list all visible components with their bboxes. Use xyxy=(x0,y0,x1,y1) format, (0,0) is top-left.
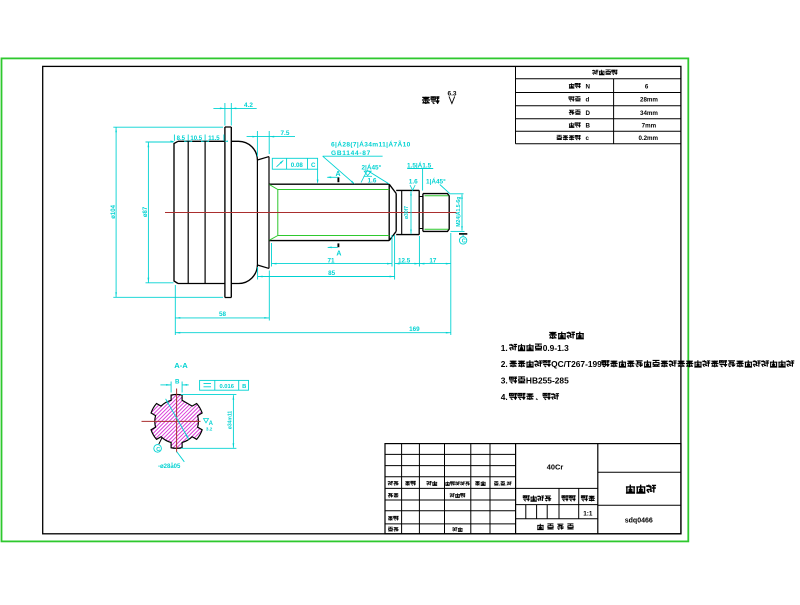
svg-text:3.: 3. xyxy=(501,376,508,386)
flange disc xyxy=(225,127,231,298)
svg-text:8.5: 8.5 xyxy=(177,136,186,142)
svg-text:B: B xyxy=(175,378,180,385)
bell housing body outline xyxy=(174,141,225,283)
spline parameter table xyxy=(516,78,681,80)
svg-text:c: c xyxy=(586,135,590,142)
threaded end xyxy=(423,194,449,232)
neck vertical xyxy=(256,160,258,265)
datum C flag xyxy=(459,233,467,235)
dim 169 overall xyxy=(175,332,451,334)
runout tolerance frame xyxy=(272,158,317,169)
dim 58 bell length xyxy=(174,285,176,335)
svg-text:6|Á28(7|Á34m11|Á7Ã10: 6|Á28(7|Á34m11|Á7Ã10 xyxy=(331,139,411,148)
dim 71 spline length xyxy=(271,243,273,267)
svg-text:0.9-1.3: 0.9-1.3 xyxy=(543,343,569,353)
shoulder slant top xyxy=(257,157,269,160)
svg-text:sdq0466: sdq0466 xyxy=(625,517,653,524)
technical requirements text xyxy=(549,332,557,339)
bell groove line 2 xyxy=(204,141,206,283)
svg-text:1|Á45°: 1|Á45° xyxy=(426,177,446,186)
svg-text:12.5: 12.5 xyxy=(398,257,411,264)
spline shaft outline xyxy=(269,184,396,240)
svg-text:2.: 2. xyxy=(501,359,508,369)
dim 4.2 flange width xyxy=(224,103,226,126)
svg-text:6: 6 xyxy=(645,83,649,90)
dome transition bottom xyxy=(231,265,257,284)
svg-text:-ø28å05: -ø28å05 xyxy=(158,463,181,470)
svg-text:N: N xyxy=(586,83,591,90)
dim 17 xyxy=(418,236,420,267)
svg-text:ø104: ø104 xyxy=(111,204,117,218)
svg-text:C: C xyxy=(156,447,160,453)
svg-text:58: 58 xyxy=(219,311,227,318)
svg-text:ø30f7: ø30f7 xyxy=(404,206,410,219)
svg-text:7.5: 7.5 xyxy=(281,130,290,137)
svg-text:2|Á45°: 2|Á45° xyxy=(362,163,382,172)
svg-text:28mm: 28mm xyxy=(640,97,658,104)
svg-text:HB255-285: HB255-285 xyxy=(526,376,569,386)
svg-text:85: 85 xyxy=(328,270,336,277)
dim dia104 xyxy=(115,127,117,297)
outer green drawing frame xyxy=(2,58,689,541)
svg-text:A: A xyxy=(335,171,340,178)
neck section after spline xyxy=(396,190,419,234)
svg-text:4.: 4. xyxy=(501,392,508,402)
title block xyxy=(385,444,681,534)
title block texts xyxy=(388,481,393,485)
svg-text:71: 71 xyxy=(328,257,336,264)
svg-text:1.6: 1.6 xyxy=(368,178,377,185)
svg-text:A: A xyxy=(336,251,341,258)
svg-text:4.2: 4.2 xyxy=(244,102,253,109)
svg-text:ø34m11: ø34m11 xyxy=(228,411,234,430)
svg-text:7mm: 7mm xyxy=(642,123,657,130)
thread minor dia (green) xyxy=(425,196,449,230)
bell groove line 1 xyxy=(187,141,189,283)
inner black border frame xyxy=(43,66,681,533)
svg-text:17: 17 xyxy=(429,257,437,264)
spline runout line xyxy=(401,190,403,234)
shoulder edge xyxy=(268,157,270,269)
svg-text:d: d xyxy=(586,97,590,104)
dim B key width xyxy=(170,382,172,393)
dim M24x1.5 thread xyxy=(451,230,465,232)
dim 12.5 xyxy=(395,263,420,265)
svg-text:0.016: 0.016 xyxy=(219,384,234,390)
datum C flag on section xyxy=(159,437,162,444)
section centerlines (red) xyxy=(142,420,201,422)
undercut groove xyxy=(419,197,423,229)
svg-text:M24|Á1.5-6g: M24|Á1.5-6g xyxy=(455,197,462,227)
dim dia34 section xyxy=(181,394,236,396)
shoulder slant bottom xyxy=(257,265,269,268)
default surface roughness note xyxy=(422,97,430,104)
leader to dia28 text xyxy=(177,452,185,462)
svg-text:ø87: ø87 xyxy=(143,206,149,217)
svg-text:3.2: 3.2 xyxy=(206,427,213,432)
dim 7.5 shoulder width xyxy=(256,131,258,157)
svg-text:D: D xyxy=(586,110,591,117)
svg-text:0.08: 0.08 xyxy=(291,162,304,169)
dims 8.5 10.5 11.5 groove widths xyxy=(173,135,175,141)
centerline (red) xyxy=(165,212,457,214)
symmetry tolerance frame xyxy=(200,380,249,390)
dome transition top xyxy=(231,141,257,160)
dim dia87 xyxy=(147,142,149,282)
datum A mark on section xyxy=(204,419,209,423)
svg-text:0.2mm: 0.2mm xyxy=(638,135,658,142)
spline section hatching xyxy=(83,381,269,461)
spline root lines (green) xyxy=(269,185,389,241)
svg-text:10.5: 10.5 xyxy=(190,136,202,142)
chamfer 2x45 + roughness 1.6 at spline end xyxy=(367,170,389,184)
svg-text:169: 169 xyxy=(409,326,420,333)
svg-text:B: B xyxy=(242,384,246,390)
svg-text:11.5: 11.5 xyxy=(208,136,220,142)
dia dim through section xyxy=(166,399,189,440)
svg-text:C: C xyxy=(462,239,466,245)
svg-text:QC/T267-1999: QC/T267-1999 xyxy=(551,359,607,369)
spline section outline xyxy=(151,395,202,449)
svg-text:1.6: 1.6 xyxy=(409,179,418,186)
section A-A cut marks xyxy=(337,177,339,182)
svg-text:40Cr: 40Cr xyxy=(547,463,564,472)
svg-text:34mm: 34mm xyxy=(640,110,658,117)
svg-text:1:1: 1:1 xyxy=(583,511,593,518)
dim 85 xyxy=(257,267,259,280)
svg-text:A-A: A-A xyxy=(174,361,188,370)
svg-text:C: C xyxy=(311,162,316,169)
svg-text:B: B xyxy=(586,123,591,130)
dim dia30 neck xyxy=(410,191,412,234)
svg-text:1.: 1. xyxy=(501,343,508,353)
